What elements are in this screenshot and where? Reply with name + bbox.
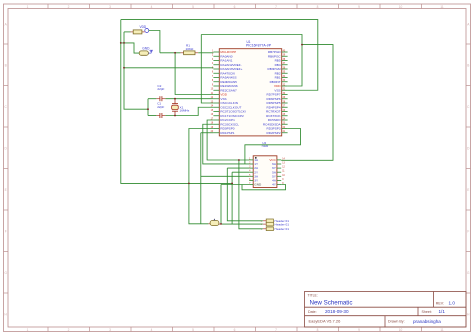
svg-text:1: 1	[27, 328, 29, 332]
wire U1 RC2 to U2 pin1	[207, 120, 249, 160]
wire rail B to U1 pin32 VDD	[201, 35, 302, 87]
wire GND top rail to U1 pin31 VSS	[121, 20, 318, 91]
wire under U2 body to pin8	[242, 185, 286, 190]
U1 pin 32 VDD	[282, 85, 288, 87]
U1 pin 15 RC0T1OSOT1CKI	[213, 111, 219, 113]
U1 pin 29 RD6PSP6	[282, 98, 288, 100]
svg-text:2: 2	[68, 328, 70, 332]
svg-text:6: 6	[234, 5, 236, 9]
U1 pin 38 RB5	[282, 60, 288, 62]
wire to U2 pin5	[201, 175, 249, 177]
wire mid-left rail to cap box	[124, 43, 148, 109]
svg-text:B: B	[467, 63, 469, 67]
title block frame	[305, 292, 467, 328]
U2 pin 6 3Y	[249, 179, 253, 181]
U1 pin 28 RD5PSP5	[282, 102, 288, 104]
svg-text:16MHz: 16MHz	[180, 109, 190, 113]
U1 pin 1 MCLR/VPP	[213, 51, 219, 53]
svg-text:5: 5	[192, 328, 194, 332]
wire U2 pin7 GND to the left	[221, 184, 249, 186]
junction at 232.1,183.4	[231, 183, 233, 185]
resistor R1	[181, 52, 184, 54]
connector P2 Header 01	[266, 222, 273, 226]
svg-text:pranabsingha: pranabsingha	[413, 319, 441, 324]
svg-text:11: 11	[440, 328, 444, 332]
svg-text:5: 5	[192, 5, 194, 9]
junction at 175.0,115.5	[174, 115, 176, 117]
svg-text:10: 10	[282, 175, 285, 177]
U1 pin 36 RB3PGM	[282, 68, 288, 70]
svg-text:D: D	[467, 146, 470, 150]
capacitor C2	[159, 96, 161, 101]
svg-text:9: 9	[358, 5, 360, 9]
junction at 120.8,42.9	[120, 42, 122, 44]
svg-text:9: 9	[282, 179, 284, 181]
svg-text:VDD: VDD	[140, 25, 147, 29]
wire branch down to header P3	[239, 160, 263, 229]
U1 pin 12 VSS	[213, 98, 219, 100]
U1 pin 24 RC5SDO	[282, 119, 288, 121]
svg-text:PIC16F877A-I/P: PIC16F877A-I/P	[246, 44, 272, 48]
svg-text:H: H	[467, 312, 470, 316]
U1 pin 2 RA0AN0	[213, 55, 219, 57]
svg-text:A: A	[5, 22, 8, 26]
U1 pin 33 RB0INT	[282, 81, 288, 83]
wire node A to S2/GND flag	[121, 43, 139, 53]
op-amp U1 body (PIC16F877A-I/P microcontroller)	[219, 49, 281, 136]
U2 pin 11 5A	[277, 171, 281, 173]
wire R1 to U1 pin1 MCLR	[198, 52, 213, 54]
U1 pin 39 RB6PGC	[282, 55, 288, 57]
svg-text:REV:: REV:	[436, 301, 444, 305]
U2 pin 10 5Y	[277, 175, 281, 177]
U1 pin 25 RC6TXCK	[282, 115, 288, 117]
U2 pin 9 4A	[277, 179, 281, 181]
wire branch to U1 pin11 VDD	[175, 53, 213, 95]
svg-text:E: E	[5, 188, 7, 192]
svg-text:Drawn By:: Drawn By:	[388, 320, 405, 324]
U1 pin 16 RC1T1OSICCP2	[213, 115, 219, 117]
svg-text:8: 8	[317, 328, 319, 332]
wire cap box left vertical	[147, 99, 149, 116]
U1 pin 3 RA1AN1	[213, 60, 219, 62]
svg-text:9: 9	[358, 328, 360, 332]
junction at 124.0,67.8	[123, 67, 125, 69]
svg-text:GND: GND	[142, 47, 150, 51]
svg-text:1: 1	[27, 5, 29, 9]
wire S1 left lead to corner	[124, 31, 131, 33]
svg-text:3: 3	[109, 5, 111, 9]
U1 pin 40 RB7PGD	[282, 51, 288, 53]
U1 pin 27 RD4PSP4	[282, 106, 288, 108]
svg-text:10: 10	[399, 5, 403, 9]
U2 pin 7 GND	[249, 184, 253, 186]
U1 pin 5 RA3AN3VREF+	[213, 68, 219, 70]
wire GND run to header P2	[221, 223, 262, 225]
svg-text:E: E	[467, 188, 469, 192]
U2 pin 14 VCC	[277, 159, 281, 161]
U1 pin 20 RD1PSP1	[213, 132, 219, 134]
svg-text:3: 3	[109, 328, 111, 332]
wire U1 RD1 to vertical	[201, 132, 214, 134]
svg-text:F: F	[5, 229, 7, 233]
wire to U2 pin3	[227, 167, 249, 169]
svg-text:A: A	[467, 22, 470, 26]
wire jog to U1 pin13 OSC1	[201, 99, 213, 103]
svg-text:13: 13	[282, 163, 285, 165]
svg-text:2: 2	[68, 5, 70, 9]
U1 pin 22 RD3PSP3	[282, 128, 288, 130]
svg-text:10KΩ: 10KΩ	[186, 47, 195, 51]
svg-text:Header 01: Header 01	[275, 222, 290, 226]
U2 pin 4 2Y	[249, 171, 253, 173]
U1 pin 4 RA2AN2VREF-	[213, 64, 219, 66]
U1 pin 17 RC2CCP1	[213, 119, 219, 121]
U2 pin1 marker dot	[255, 157, 257, 159]
svg-text:G: G	[467, 271, 470, 275]
U1 pin 37 RB4	[282, 64, 288, 66]
U1 pin 30 RD7PSP7	[282, 94, 288, 96]
U1 pin 10 RE2CSAN7	[213, 89, 219, 91]
junction at 221.0,223.9	[220, 223, 222, 225]
U1 pin 9 RE1WRAN6	[213, 85, 219, 87]
junction at 302.0,44.6	[301, 44, 303, 46]
U1 pin 14 OSC2CLKOUT	[213, 106, 219, 108]
svg-text:6: 6	[234, 328, 236, 332]
U1 pin 19 RD0PSP0	[213, 128, 219, 130]
U1 pin 21 RD2PSP2	[282, 132, 288, 134]
svg-text:F: F	[467, 229, 469, 233]
junction at 238.9,160.0	[238, 159, 240, 161]
svg-text:1.0: 1.0	[449, 301, 456, 306]
wire rail B left vertical	[200, 35, 202, 99]
U2 pin 12 6Y	[277, 167, 281, 169]
svg-text:4: 4	[151, 328, 153, 332]
svg-text:RD1PSP1: RD1PSP1	[220, 131, 234, 135]
junction at 124.0,42.9	[123, 42, 125, 44]
svg-text:4Y: 4Y	[272, 183, 276, 187]
wire U1 RC3 to U2 pin2	[203, 124, 249, 164]
svg-text:2018-09-30: 2018-09-30	[325, 309, 349, 314]
U2 pin 13 6A	[277, 163, 281, 165]
wire U2 pin3 down to header P1	[227, 168, 262, 221]
wire to U2 pin4	[232, 171, 249, 173]
wire cap box bottom left segment	[148, 115, 156, 117]
svg-text:C: C	[5, 105, 8, 109]
svg-text:12: 12	[282, 167, 285, 169]
crystal X1	[174, 99, 176, 104]
svg-text:22pF: 22pF	[157, 87, 164, 91]
U2 pin 3 2A	[249, 167, 253, 169]
U1 pin 35 RB2	[282, 72, 288, 74]
wire U1 RD0 down to buzzer	[189, 129, 214, 224]
svg-text:Sheet:: Sheet:	[422, 310, 432, 314]
svg-text:7: 7	[275, 5, 277, 9]
wire cap box top left segment	[148, 98, 156, 100]
U2 pin 1 1A	[249, 159, 253, 161]
wire VDD flag down to MCLR node	[149, 31, 160, 53]
reset switch S1 (yellow component near VDD flag)	[131, 31, 134, 33]
U2 pin 5 3A	[249, 175, 253, 177]
wire U2 pin4 down to GND run	[231, 172, 233, 224]
wire MCLR node to R1	[160, 52, 181, 54]
svg-text:Date:: Date:	[308, 310, 317, 314]
svg-text:8: 8	[317, 5, 319, 9]
svg-text:1/1: 1/1	[439, 309, 446, 314]
svg-text:22pF: 22pF	[157, 105, 164, 109]
junction at 175.0,98.7	[174, 98, 176, 100]
wire S1 branch down	[123, 32, 125, 43]
svg-text:RD2PSP2: RD2PSP2	[266, 131, 280, 135]
ground flag GND	[148, 52, 151, 54]
op-amp U2 body (7406 hex inverter)	[253, 156, 277, 188]
svg-text:D: D	[5, 146, 8, 150]
svg-text:B: B	[5, 63, 7, 67]
capacitor C1	[159, 113, 161, 118]
svg-text:GND: GND	[254, 183, 262, 187]
U1 pin 18 RC3SCKSCL	[213, 123, 219, 125]
VDD power flag	[145, 29, 149, 33]
svg-text:EasyEDA V5.7.26: EasyEDA V5.7.26	[309, 319, 342, 324]
switch S2 (yellow pill component near GND flag)	[139, 51, 148, 55]
U2 pin 2 1Y	[249, 163, 253, 165]
wire left GND rail down and across bottom	[121, 20, 232, 184]
svg-text:Header 01: Header 01	[275, 227, 290, 231]
junction at 188.9,183.4	[188, 183, 190, 185]
frame tick marks and labels	[47, 4, 49, 9]
U1 pin 34 RB1	[282, 77, 288, 79]
connector P1 Header 01	[266, 219, 273, 223]
U2 pin 8 4Y	[277, 184, 281, 186]
wire rail C to U2 pin14 VCC	[281, 45, 333, 161]
U1 pin 23 RC4SDISDA	[282, 123, 288, 125]
svg-text:C: C	[467, 105, 470, 109]
wire RD1 vertical down to buzzer run	[200, 133, 202, 224]
wire C1 to U1 pin14 OSC2	[165, 107, 213, 115]
buzzer LS1 (pill component bottom)	[208, 223, 210, 225]
wire to U1 pin RA3	[124, 67, 213, 69]
wire U1 pin22 RD3 loop down to U2 pin2 wire	[245, 129, 301, 164]
U1 pin 13 OSC1CLKIN	[213, 102, 219, 104]
svg-text:11: 11	[282, 171, 285, 173]
U1 pin 31 VSS	[282, 89, 288, 91]
U1 pin 26 RC7RXDT	[282, 111, 288, 113]
svg-text:H: H	[5, 312, 8, 316]
junction at 148.0,109.2	[147, 108, 149, 110]
svg-text:G: G	[4, 271, 7, 275]
svg-text:4: 4	[151, 5, 153, 9]
U1 pin 7 RA5AN4SS	[213, 77, 219, 79]
wire C2 to U1 pin12 VSS	[165, 98, 213, 100]
svg-text:TITLE:: TITLE:	[308, 293, 318, 297]
svg-text:7: 7	[275, 328, 277, 332]
junction at 175.1,52.8	[174, 52, 176, 54]
U1 pin 11 VDD	[213, 94, 219, 96]
connector P3 Header 01	[266, 227, 273, 231]
U1 pin 6 RA4T0CKI	[213, 72, 219, 74]
svg-text:New Schematic: New Schematic	[310, 300, 353, 307]
U1 pin 8 RE0RDAN5	[213, 81, 219, 83]
wire pin7 branch down to GND run	[220, 185, 222, 224]
svg-text:11: 11	[440, 5, 444, 9]
svg-text:10: 10	[399, 328, 403, 332]
